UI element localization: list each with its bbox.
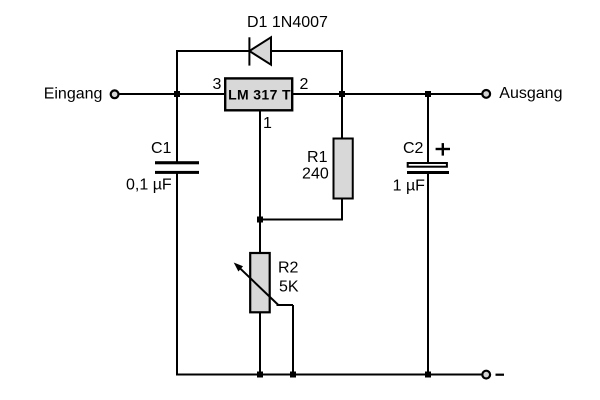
svg-text:C1: C1	[151, 140, 172, 157]
svg-text:R1: R1	[307, 149, 328, 166]
svg-text:3: 3	[213, 76, 222, 93]
svg-text:1: 1	[263, 115, 272, 132]
svg-text:240: 240	[302, 165, 329, 182]
svg-text:C2: C2	[403, 140, 424, 157]
svg-text:R2: R2	[278, 260, 299, 277]
svg-text:LM 317 T: LM 317 T	[228, 86, 291, 102]
svg-text:0,1 µF: 0,1 µF	[126, 176, 172, 193]
svg-text:Ausgang: Ausgang	[499, 85, 562, 102]
svg-text:Eingang: Eingang	[44, 85, 103, 102]
svg-text:1 µF: 1 µF	[393, 178, 426, 195]
svg-text:5K: 5K	[279, 278, 299, 295]
svg-text:D1 1N4007: D1 1N4007	[247, 14, 328, 31]
svg-text:2: 2	[300, 76, 309, 93]
